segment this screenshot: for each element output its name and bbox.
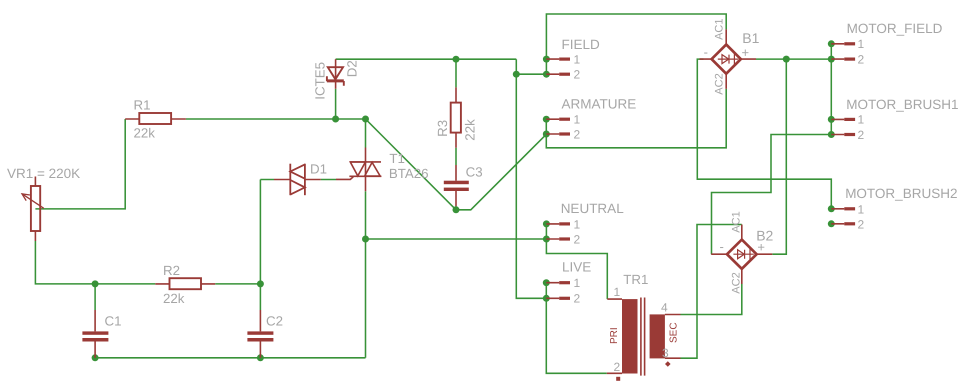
- svg-text:AC2: AC2: [714, 73, 726, 94]
- svg-text:+: +: [742, 45, 750, 60]
- svg-text:C3: C3: [466, 164, 483, 179]
- svg-text:C2: C2: [266, 314, 283, 329]
- svg-text:1: 1: [858, 37, 865, 51]
- svg-text:1: 1: [574, 217, 581, 231]
- svg-text:MOTOR_BRUSH1: MOTOR_BRUSH1: [846, 97, 958, 112]
- svg-text:ICTE5: ICTE5: [313, 62, 328, 100]
- svg-text:1: 1: [574, 113, 581, 127]
- svg-text:22k: 22k: [463, 119, 478, 141]
- svg-text:AC2: AC2: [731, 272, 743, 293]
- svg-text:1: 1: [574, 276, 581, 290]
- svg-text:2: 2: [858, 128, 865, 142]
- svg-text:2: 2: [574, 232, 581, 246]
- svg-text:22k: 22k: [134, 125, 156, 140]
- svg-text:1: 1: [574, 53, 581, 67]
- svg-text:-: -: [720, 239, 724, 254]
- svg-text:R3: R3: [435, 120, 450, 137]
- svg-text:TR1: TR1: [623, 272, 648, 287]
- svg-text:ARMATURE: ARMATURE: [562, 96, 637, 111]
- svg-text:AC1: AC1: [731, 211, 743, 232]
- svg-text:NEUTRAL: NEUTRAL: [561, 201, 625, 216]
- svg-text:B1: B1: [742, 30, 759, 46]
- svg-text:2: 2: [574, 128, 581, 142]
- svg-text:MOTOR_BRUSH2: MOTOR_BRUSH2: [845, 186, 957, 201]
- svg-text:T1: T1: [389, 151, 405, 166]
- svg-text:1: 1: [858, 202, 865, 216]
- svg-text:SEC: SEC: [669, 322, 680, 343]
- svg-text:-: -: [704, 44, 708, 59]
- svg-text:R2: R2: [163, 263, 180, 278]
- svg-text:2: 2: [574, 292, 581, 306]
- svg-text:2: 2: [614, 360, 621, 374]
- svg-text:R1: R1: [134, 97, 151, 112]
- svg-text:2: 2: [858, 217, 865, 231]
- svg-text:BTA26: BTA26: [389, 166, 429, 181]
- svg-text:LIVE: LIVE: [562, 260, 591, 275]
- svg-text:+: +: [757, 239, 765, 254]
- svg-text:PRI: PRI: [609, 327, 620, 344]
- svg-text:FIELD: FIELD: [562, 37, 601, 52]
- svg-text:2: 2: [858, 53, 865, 67]
- svg-text:2: 2: [574, 68, 581, 82]
- svg-text:3: 3: [662, 346, 669, 360]
- svg-text:C1: C1: [105, 314, 122, 329]
- svg-text:1: 1: [614, 285, 621, 299]
- svg-text:1: 1: [858, 113, 865, 127]
- svg-text:MOTOR_FIELD: MOTOR_FIELD: [847, 21, 943, 36]
- svg-text:VR1 = 220K: VR1 = 220K: [7, 166, 80, 181]
- svg-text:22k: 22k: [163, 291, 185, 306]
- svg-text:4: 4: [661, 300, 668, 314]
- svg-text:D1: D1: [310, 162, 327, 177]
- svg-text:D2: D2: [345, 60, 360, 77]
- svg-text:AC1: AC1: [714, 18, 726, 39]
